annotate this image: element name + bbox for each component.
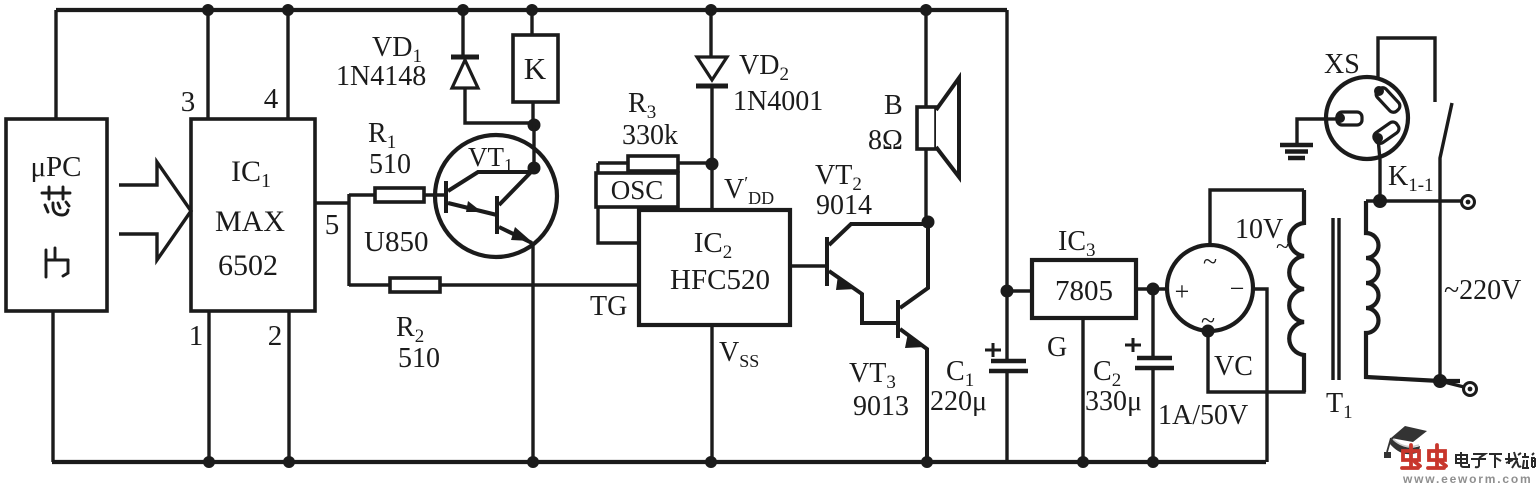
pin 3 wire [206,10,209,119]
wire bridge top to transformer [1210,190,1304,245]
pin 4 wire [286,10,289,119]
arrow VT1 inner emitter [466,201,482,212]
svg-text:μPC: μPC [30,151,81,183]
wire VT1 emitter to ground rail [531,243,534,462]
svg-text:9013: 9013 [853,391,909,422]
arrow VT2 emitter [836,275,856,290]
transistor VT3 [898,222,928,462]
wire bridge right output down to ground rail [1253,289,1267,462]
IC1 box [191,119,315,311]
svg-text:OSC: OSC [611,175,664,205]
svg-text:5: 5 [325,209,340,241]
junction bottom rail at C2 [1147,456,1159,468]
svg-text:~: ~ [1203,247,1217,276]
svg-text:+: + [1175,277,1190,306]
svg-text:K: K [524,51,547,86]
svg-text:9014: 9014 [816,190,872,221]
OSC box [596,163,599,173]
signal arrow uPC to IC1 [119,162,191,260]
XS left prong slot [1326,117,1340,120]
transistor VT1 U850 darlington [435,135,557,257]
node VT1 collector [528,162,541,175]
junction top rail at speaker [920,4,932,16]
svg-text:3: 3 [181,86,196,118]
svg-text:2: 2 [268,320,283,352]
text 片 (chip char 2) [46,248,68,277]
wire XS top to switch [1378,38,1435,102]
svg-text:MAX: MAX [215,205,285,238]
transistor VT2 [827,224,928,323]
bridge rectifier VC circle [1167,245,1253,331]
svg-text:~220V: ~220V [1444,275,1521,306]
XS top-right prong slot [1374,86,1402,115]
node bridge bottom [1202,325,1215,338]
wire IC2 output to VT2 base [790,264,827,267]
wire junction to VT1 collector [532,125,535,168]
node switch / secondary bottom [1433,374,1447,388]
svg-text:www.eeworm.com: www.eeworm.com [1402,472,1532,484]
junction bottom rail at VT1 emitter [527,456,539,468]
wire pin5 branch vertical [347,194,350,286]
ground symbol [1297,119,1326,143]
watermark text 电子下载站 [1456,452,1535,468]
svg-text:330μ: 330μ [1085,386,1142,417]
text 芯 (chip char 1) [42,187,70,215]
wire to bottom terminal [1440,381,1464,387]
capacitor C2 [1151,289,1154,358]
junction bottom rail at pin2 [283,456,295,468]
node VT2/VT3 collector [922,216,935,229]
XS bottom-right prong slot [1372,120,1401,145]
capacitor C1 [1005,10,1008,361]
node secondary top / XS prong [1373,194,1387,208]
svg-text:1N4148: 1N4148 [336,61,426,92]
uPC chip box [6,119,107,311]
arrow VT1 outer emitter [511,227,531,241]
relay K [530,10,533,35]
terminal top [1462,196,1475,209]
wire 7805 ground pin [1081,318,1084,462]
transformer T1 primary winding (10V side) [1289,190,1304,392]
IC2 box [639,210,790,325]
wire uPC chip to ground rail [51,311,54,462]
wire bridge bottom VC loop [1208,331,1304,392]
wire bottom ground rail [52,460,1266,464]
wire speaker to collector node [924,149,927,222]
svg-text:HFC520: HFC520 [670,264,770,296]
svg-text:1A/50V: 1A/50V [1158,400,1248,431]
switch K1-1 blade [1440,103,1452,381]
speaker B [917,107,936,149]
junction bottom rail at pin1 [203,456,215,468]
junction top rail at VD2 [705,4,717,16]
resistor R2 [349,283,390,286]
wire top rail to uPC chip [54,10,57,119]
wire 7805 output [1136,287,1167,290]
svg-text:G: G [1047,332,1067,363]
svg-text:1: 1 [189,320,204,352]
junction bottom rail at 7805 G [1077,456,1089,468]
speaker B wire from top rail [924,10,927,107]
wire secondary top to terminal [1366,199,1461,202]
node Vdd junction [706,158,719,171]
wire XS bottom prong to node [1378,138,1380,201]
watermark logo graduation cap [1384,426,1427,458]
svg-text:VC: VC [1214,351,1253,382]
node 7805 input [1001,285,1014,298]
arrow VT3 emitter [905,333,925,348]
wire C1 node to 7805 [1007,289,1032,292]
junction bottom rail at Vss [705,456,717,468]
diode VD1 [461,10,464,57]
terminal bottom [1464,383,1477,396]
svg-text:330k: 330k [622,120,678,151]
junction bottom rail at VT3 emitter [921,456,933,468]
plus sign C2 [1125,338,1141,352]
pin 5 wire [315,201,349,204]
junction top rail at VD1 [457,4,469,16]
wire IC2 Vss pin to ground rail [710,325,713,462]
resistor R1 [349,193,375,196]
diode VD2 [709,10,712,57]
pin 1 wire [207,311,210,462]
junction top rail at pin3 [202,4,214,16]
svg-text:510: 510 [369,149,411,180]
svg-text:8Ω: 8Ω [868,125,903,156]
junction top rail at pin4 [282,4,294,16]
socket XS circle [1326,77,1408,159]
wire TG from R2 to IC2 [440,283,639,286]
svg-text:~: ~ [1276,234,1289,260]
node 7805 output [1147,283,1160,296]
node VD1/K junction [528,119,541,132]
svg-text:7805: 7805 [1055,275,1113,307]
svg-text:6502: 6502 [218,249,278,282]
transformer T1 core [1333,218,1339,380]
svg-text:1N4001: 1N4001 [733,86,823,117]
svg-text:U850: U850 [364,226,428,258]
svg-text:B: B [884,90,903,121]
svg-text:4: 4 [264,83,279,115]
svg-text:TG: TG [590,291,627,322]
transformer T1 secondary winding (220V side) [1366,201,1460,381]
svg-text:−: − [1230,274,1245,303]
watermark 虫虫 red characters [1402,445,1446,468]
junction top rail at K [526,4,538,16]
plus sign C1 [985,343,1001,357]
svg-text:510: 510 [398,343,440,374]
wire top supply rail [56,8,1007,12]
wire OSC to IC2 [598,207,639,243]
svg-text:220μ: 220μ [930,386,987,417]
pin 2 wire [287,311,290,462]
svg-text:XS: XS [1324,49,1360,80]
